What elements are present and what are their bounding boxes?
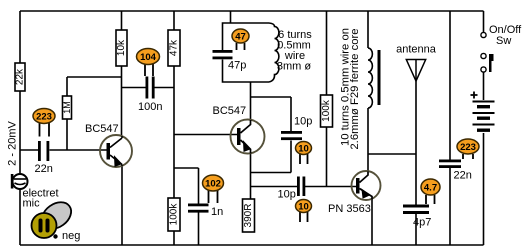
- ceramic pictorial 4.7: [421, 179, 440, 204]
- svg-text:BC547: BC547: [85, 123, 119, 135]
- svg-text:10: 10: [298, 144, 309, 155]
- wire 100k2 column: [326, 11, 328, 187]
- svg-text:102: 102: [205, 179, 221, 190]
- capacitor 1n: [188, 204, 223, 219]
- wire switch battery column: [483, 11, 485, 245]
- svg-text:10k: 10k: [116, 39, 127, 56]
- wire base Q2: [174, 134, 237, 136]
- resistor 100k second: [321, 95, 333, 127]
- svg-text:10p: 10p: [278, 189, 296, 201]
- resistor 22k: [15, 63, 26, 91]
- ceramic pictorial 10 first: [296, 142, 312, 165]
- capacitor 22n bypass: [439, 160, 472, 182]
- wire top supply rail: [20, 10, 484, 12]
- resistor 100k first: [168, 198, 180, 231]
- input terminal circle: [11, 174, 28, 189]
- ceramic pictorial 104: [137, 49, 160, 77]
- capacitor 100n: [138, 77, 162, 114]
- antenna: [406, 60, 425, 82]
- wire 1n branch: [174, 168, 199, 245]
- ceramic pictorial 10 second: [296, 200, 312, 223]
- wire emitter Q1 to ground: [121, 166, 123, 245]
- svg-text:22n: 22n: [35, 163, 53, 175]
- wire RFC column / collector Q3: [367, 11, 369, 172]
- wire emitter to 10p2 and base Q3: [251, 186, 357, 188]
- capacitor 22n input: [35, 141, 53, 175]
- svg-text:1n: 1n: [211, 206, 223, 218]
- resistor 390R: [243, 199, 255, 232]
- wire 47k column: [173, 11, 175, 245]
- svg-text:4.7: 4.7: [424, 183, 437, 194]
- svg-text:mic: mic: [23, 198, 41, 210]
- svg-text:100n: 100n: [138, 101, 162, 113]
- svg-text:antenna: antenna: [396, 44, 437, 56]
- svg-text:2 - 20mV: 2 - 20mV: [7, 121, 19, 166]
- capacitor 10p second: [278, 177, 306, 201]
- capacitor 4p7: [403, 205, 431, 229]
- svg-text:47p: 47p: [228, 60, 246, 72]
- electret mic pictorial: [32, 197, 77, 239]
- svg-text:47k: 47k: [169, 39, 180, 56]
- inductor 6 turns (tank): [269, 23, 279, 82]
- wire 1M column: [66, 77, 68, 150]
- svg-text:22k: 22k: [15, 68, 26, 85]
- svg-text:PN 3563: PN 3563: [328, 203, 371, 215]
- ceramic pictorial 223: [33, 109, 55, 137]
- wire tank to collector Q2: [250, 82, 252, 120]
- svg-text:223: 223: [460, 142, 476, 153]
- resistor 47k: [168, 30, 180, 66]
- capacitor 10p first: [281, 116, 312, 141]
- transistor Q1 BC547: [100, 135, 132, 167]
- wire left column x=20: [19, 11, 21, 245]
- svg-text:Sw: Sw: [496, 35, 511, 47]
- ceramic pictorial 47: [232, 29, 249, 50]
- svg-text:104: 104: [140, 52, 157, 63]
- wire 22n bypass column: [449, 11, 451, 245]
- svg-text:22n: 22n: [454, 170, 472, 182]
- svg-text:3mm ø: 3mm ø: [277, 61, 312, 73]
- resistor 10k: [116, 30, 127, 66]
- svg-text:223: 223: [36, 112, 52, 123]
- wire emitter Q3 to ground: [371, 200, 373, 246]
- transistor Q3 PN3563: [352, 171, 381, 200]
- ceramic pictorial 223 second: [457, 139, 479, 159]
- svg-text:100k: 100k: [321, 99, 332, 122]
- wire 10p1 bottom to emitter: [251, 141, 292, 173]
- wire collector Q2 to 10p: [251, 97, 292, 131]
- svg-text:4p7: 4p7: [413, 217, 431, 229]
- svg-text:neg: neg: [62, 230, 80, 242]
- wire emitter Q2 down: [250, 154, 252, 200]
- svg-text:BC547: BC547: [213, 105, 247, 117]
- wire collector Q3 to antenna node: [368, 153, 416, 155]
- inductor RFC 10 turns on ferrite core: [368, 48, 381, 108]
- svg-text:47: 47: [235, 32, 246, 43]
- wire collector node Q1: [67, 11, 174, 136]
- transistor Q2 BC547: [231, 120, 265, 154]
- switch On/Off: [481, 32, 494, 72]
- wire antenna column: [415, 81, 417, 245]
- svg-text:2.6mmø F29 ferrite core: 2.6mmø F29 ferrite core: [349, 28, 361, 149]
- wire tank feed: [230, 11, 232, 23]
- svg-text:390R: 390R: [243, 204, 254, 228]
- svg-text:10p: 10p: [294, 116, 312, 128]
- svg-text:1M: 1M: [62, 101, 72, 114]
- wire mic to base node: [20, 149, 108, 151]
- wire bottom 0V rail: [20, 244, 484, 246]
- tank circuit loop with capacitor 47p: [213, 23, 270, 82]
- resistor 1M: [62, 96, 72, 119]
- svg-text:10: 10: [298, 202, 309, 213]
- ceramic pictorial 102: [203, 175, 224, 203]
- battery: [471, 92, 495, 132]
- svg-text:100k: 100k: [169, 203, 180, 226]
